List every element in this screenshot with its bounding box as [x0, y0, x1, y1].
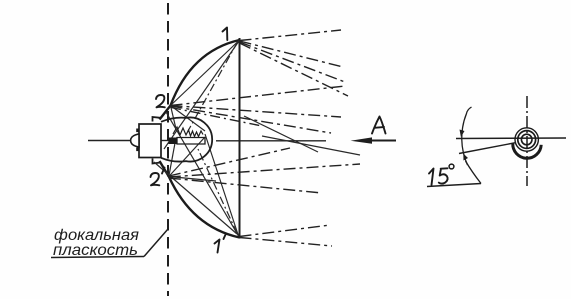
lamp contact cap: [131, 134, 139, 147]
reflector profile upper curve: [160, 40, 240, 120]
incident ray point1' to filament left extended: [166, 112, 239, 236]
lamp bayonet pin top: [136, 129, 139, 133]
reflected ray from point2' down: [169, 178, 322, 193]
reflected ray from point2 extra short: [171, 108, 262, 127]
filament shield tray: [177, 138, 205, 145]
incident ray point2' to shield right: [169, 137, 205, 177]
incident ray point1 to filament left extended: [164, 41, 239, 149]
tilted line 15 degrees: [459, 143, 516, 154]
reflector aperture vertical line: [239, 38, 241, 239]
incident ray bracket through point2' to point1': [154, 162, 237, 234]
angle arc top arrowhead: [460, 130, 465, 138]
incident dash-dot ray point1 to filament middle: [188, 42, 238, 131]
label 15 degree circle: [449, 164, 454, 169]
stray shallow ray below axis: [262, 136, 360, 155]
reflector neck bracket top: [153, 117, 161, 122]
label 1: [223, 28, 228, 41]
lamp socket body: [139, 124, 161, 158]
view arrow A head: [351, 137, 373, 143]
optical axis dash inside bulb: [157, 140, 169, 142]
front view vertical dash-dot centerline: [526, 96, 528, 186]
label 2: [156, 95, 165, 107]
incident ray point1' to filament right: [205, 134, 239, 236]
caption leader line: [144, 229, 168, 257]
lamp bayonet pin bottom: [136, 148, 139, 152]
angle arc bottom arrowhead: [463, 154, 468, 161]
stray ray crossing axis: [244, 116, 318, 152]
reflector profile lower curve: [160, 161, 240, 238]
front view outer circle: [515, 128, 538, 151]
reflected ray from point2 up: [171, 86, 346, 106]
incident ray point2 to filament right: [171, 106, 206, 132]
label 15 underline: [427, 184, 481, 187]
front view middle circle: [518, 131, 536, 149]
reflected ray from point1 lower: [240, 42, 346, 82]
front view horizontal line: [456, 137, 566, 140]
reflected ray from point1 mid: [240, 41, 344, 67]
reflected ray from point2 down: [171, 106, 332, 133]
optical axis right segment: [216, 140, 326, 142]
reflector neck bracket bottom: [153, 159, 161, 164]
filament shield left block: [169, 138, 177, 145]
front view thick bottom arc: [513, 143, 541, 158]
optical axis dash inside socket: [144, 140, 152, 142]
reflected ray from point1 up: [240, 30, 342, 41]
incident chord point1 to point2: [171, 41, 240, 106]
reflected ray from point2' shallow: [169, 164, 360, 177]
reflected ray from point2' up steep: [169, 148, 290, 176]
reflected ray from point1 steep: [240, 43, 349, 96]
label 2': [151, 168, 165, 186]
bulb glass envelope: [161, 118, 212, 162]
reflected ray from point1' down: [240, 238, 333, 247]
incident ray point2' short horizontal: [169, 177, 216, 182]
view arrow A shaft: [366, 140, 396, 142]
filament zigzag: [173, 127, 203, 137]
reflected ray from point1' up: [240, 225, 331, 237]
incident dash-dot ray point1' to filament middle: [198, 149, 237, 233]
incident ray point2' to shield left: [169, 143, 175, 177]
incident ray point2 to filament left: [171, 106, 177, 132]
caption underline: [51, 257, 144, 258]
front view inner circle: [521, 134, 532, 145]
label 15 leader curve: [466, 161, 482, 184]
optical axis left segment: [88, 140, 130, 142]
reflected ray from point2 mid: [171, 106, 342, 118]
angle measuring arc: [462, 107, 472, 165]
label 1': [215, 234, 227, 253]
view arrow A label: [372, 117, 386, 134]
label 15 degrees: [429, 168, 448, 185]
focal plane dashed line: [167, 3, 169, 296]
